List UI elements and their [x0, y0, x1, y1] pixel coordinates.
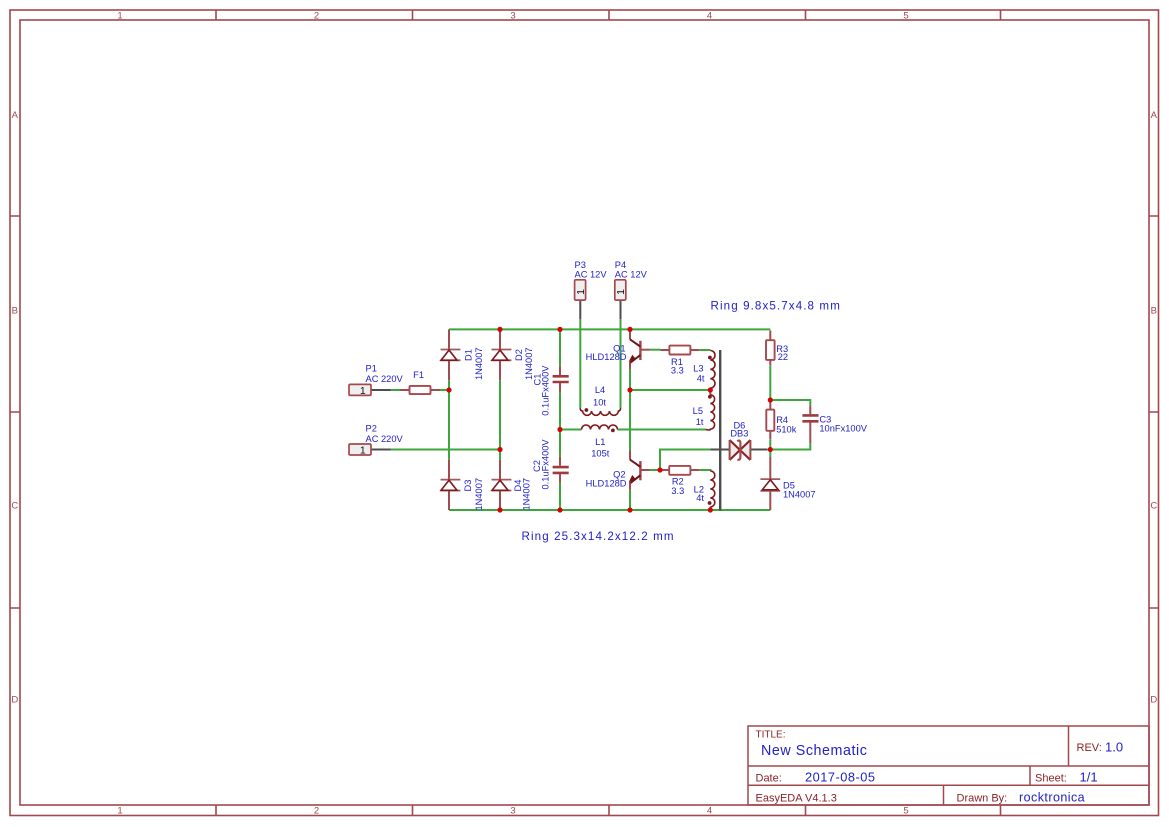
svg-text:D: D [1150, 695, 1157, 706]
svg-text:Drawn By:: Drawn By: [957, 793, 1008, 805]
svg-text:P1: P1 [366, 363, 377, 373]
svg-text:0.1uFx400V: 0.1uFx400V [540, 439, 550, 490]
svg-text:P3: P3 [575, 260, 586, 270]
svg-text:2017-08-05: 2017-08-05 [805, 770, 875, 785]
svg-text:10nFx100V: 10nFx100V [819, 424, 867, 434]
svg-text:1: 1 [117, 806, 122, 817]
svg-text:3.3: 3.3 [671, 365, 684, 375]
svg-text:1: 1 [117, 11, 122, 22]
svg-text:D1: D1 [464, 349, 474, 361]
svg-text:4: 4 [707, 11, 712, 22]
svg-text:P4: P4 [615, 260, 626, 270]
svg-text:New Schematic: New Schematic [761, 743, 867, 759]
svg-text:AC 220V: AC 220V [366, 374, 404, 384]
svg-text:3: 3 [510, 11, 515, 22]
svg-text:Ring 25.3x14.2x12.2 mm: Ring 25.3x14.2x12.2 mm [522, 530, 675, 543]
svg-text:22: 22 [778, 352, 788, 362]
svg-text:510k: 510k [776, 425, 797, 435]
svg-text:1.0: 1.0 [1105, 740, 1123, 755]
svg-text:4t: 4t [697, 374, 705, 384]
svg-text:L3: L3 [693, 364, 703, 374]
svg-text:rocktronica: rocktronica [1019, 791, 1085, 805]
svg-text:4: 4 [707, 806, 712, 817]
svg-text:0.1uFx400V: 0.1uFx400V [540, 365, 550, 416]
svg-text:AC 12V: AC 12V [575, 270, 608, 280]
svg-text:L4: L4 [595, 385, 605, 395]
svg-text:3: 3 [510, 806, 515, 817]
svg-text:D2: D2 [514, 349, 524, 361]
svg-text:F1: F1 [413, 370, 424, 380]
svg-text:1/1: 1/1 [1080, 770, 1098, 785]
svg-text:DB3: DB3 [730, 429, 748, 439]
svg-text:P2: P2 [366, 423, 377, 433]
svg-text:1N4007: 1N4007 [522, 478, 532, 511]
svg-text:D3: D3 [463, 480, 473, 492]
svg-text:A: A [1151, 110, 1158, 121]
svg-text:10t: 10t [593, 398, 606, 408]
svg-text:1: 1 [615, 289, 627, 295]
svg-text:B: B [12, 306, 18, 317]
svg-text:TITLE:: TITLE: [756, 730, 786, 741]
svg-text:1: 1 [575, 289, 587, 295]
svg-text:1N4007: 1N4007 [474, 347, 484, 380]
svg-text:HLD128D: HLD128D [586, 479, 627, 489]
svg-text:3.3: 3.3 [671, 486, 684, 496]
svg-text:B: B [1151, 306, 1157, 317]
svg-text:5: 5 [903, 11, 908, 22]
svg-text:1: 1 [360, 385, 366, 397]
svg-text:D: D [11, 695, 18, 706]
svg-text:4t: 4t [696, 493, 704, 503]
svg-text:AC 220V: AC 220V [366, 434, 404, 444]
svg-text:2: 2 [314, 806, 319, 817]
svg-text:105t: 105t [591, 449, 610, 459]
svg-text:5: 5 [903, 806, 908, 817]
svg-text:R2: R2 [672, 477, 684, 487]
svg-text:Date:: Date: [756, 773, 782, 785]
svg-text:L1: L1 [595, 437, 605, 447]
svg-text:HLD128D: HLD128D [586, 352, 627, 362]
svg-text:C: C [11, 501, 18, 512]
svg-text:AC 12V: AC 12V [615, 270, 648, 280]
svg-text:A: A [12, 110, 19, 121]
svg-text:1N4007: 1N4007 [474, 478, 484, 511]
svg-text:EasyEDA V4.1.3: EasyEDA V4.1.3 [756, 793, 837, 805]
svg-text:1: 1 [360, 445, 366, 457]
svg-text:C: C [1150, 501, 1157, 512]
svg-text:Sheet:: Sheet: [1035, 773, 1067, 785]
svg-text:2: 2 [314, 11, 319, 22]
svg-text:1N4007: 1N4007 [783, 490, 816, 500]
svg-text:L5: L5 [693, 406, 703, 416]
svg-text:REV:: REV: [1077, 742, 1102, 754]
svg-text:Ring 9.8x5.7x4.8 mm: Ring 9.8x5.7x4.8 mm [711, 300, 841, 313]
svg-text:1t: 1t [696, 417, 704, 427]
